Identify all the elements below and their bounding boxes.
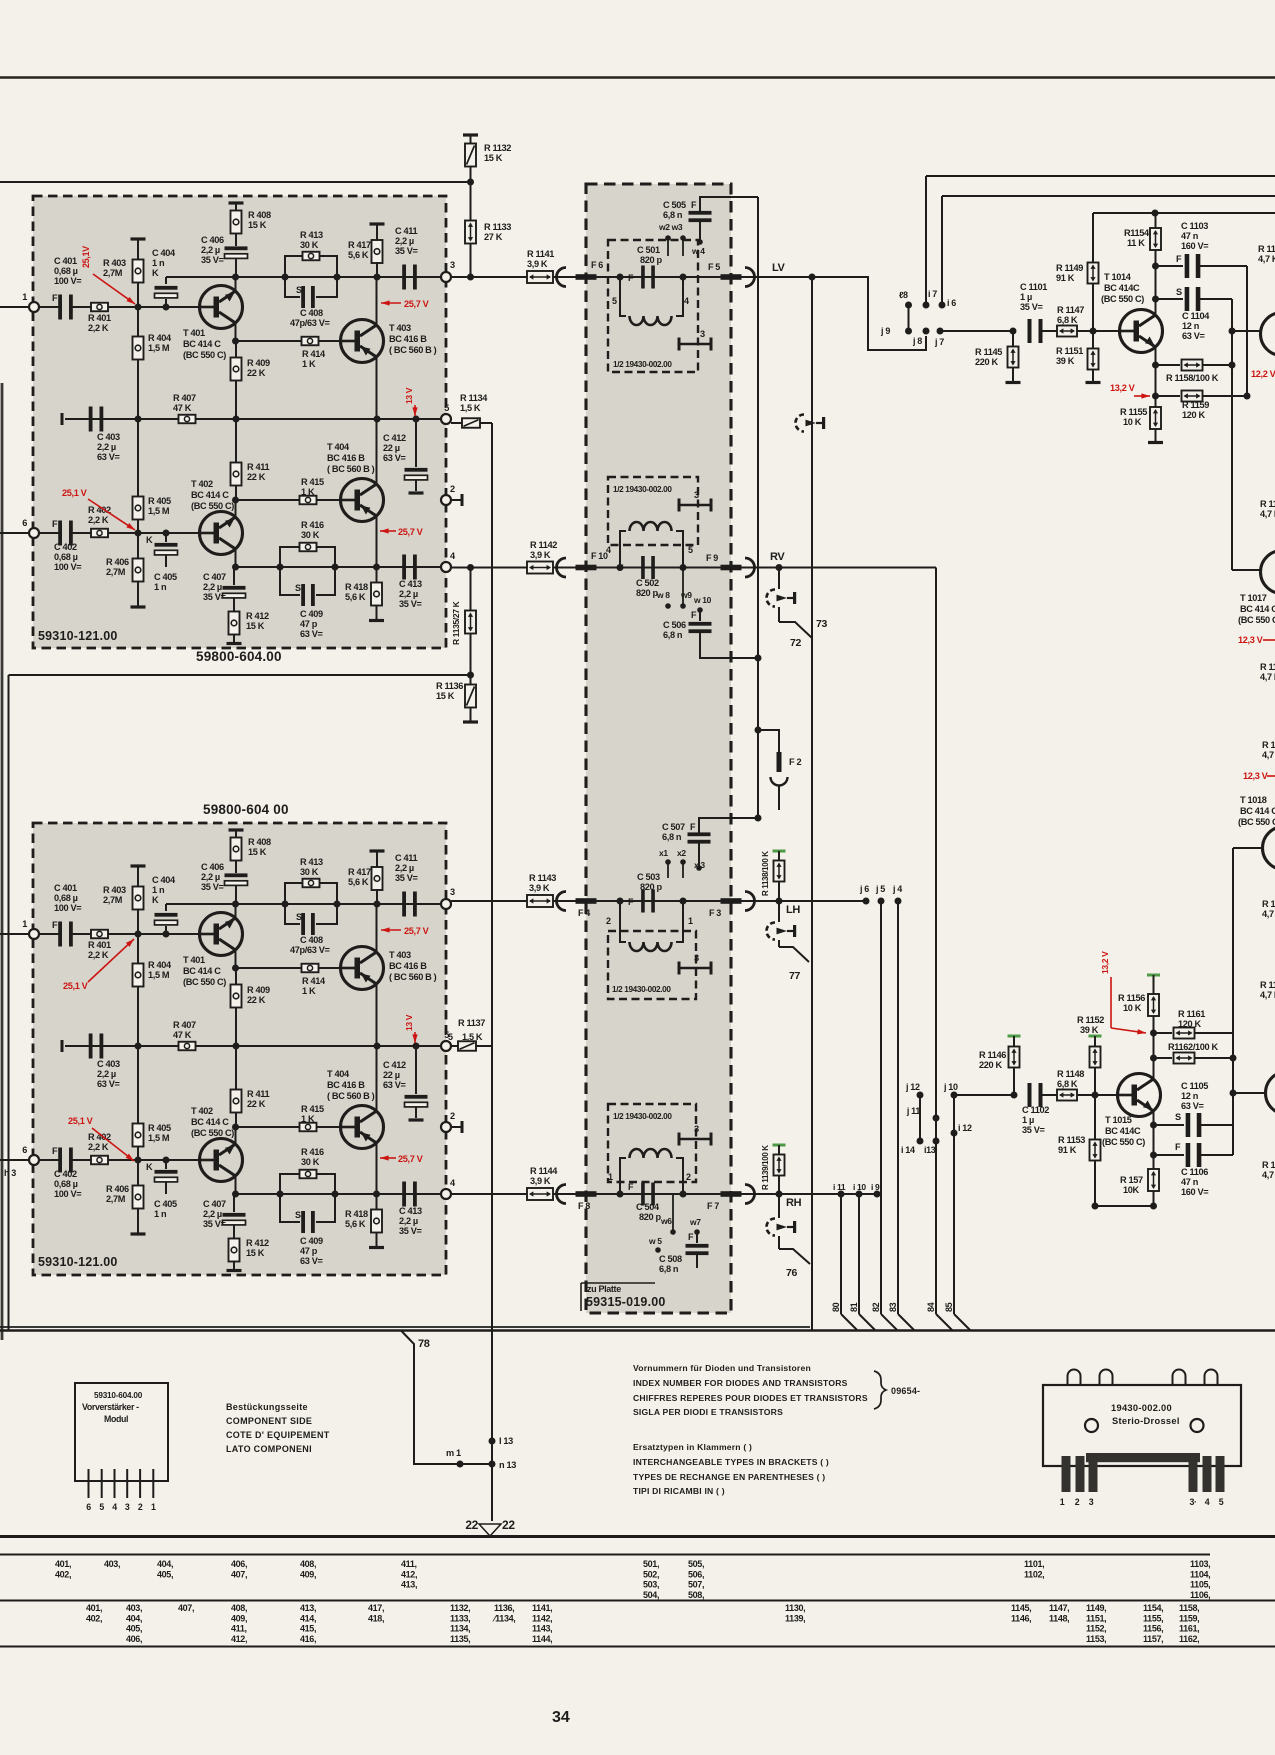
capacitor C412 xyxy=(415,419,417,467)
wire i6 vertical xyxy=(941,196,943,305)
svg-text:F: F xyxy=(691,200,697,210)
capacitor C413 xyxy=(402,555,406,580)
svg-text:j 12: j 12 xyxy=(905,1082,920,1092)
resistor R412 xyxy=(233,1225,235,1239)
svg-text:401,: 401, xyxy=(86,1603,102,1613)
svg-text:C 407: C 407 xyxy=(203,572,226,582)
svg-text:T 404: T 404 xyxy=(327,442,350,452)
table rule 1 xyxy=(0,1554,1210,1556)
svg-text:59800-604.00: 59800-604.00 xyxy=(196,649,282,664)
wire R1144 to F8 xyxy=(553,1193,576,1195)
feedthrough F5 xyxy=(721,274,742,280)
svg-text:160 V=: 160 V= xyxy=(1181,241,1208,251)
wire C506 bottom to right bus xyxy=(700,632,756,658)
svg-text:1161,: 1161, xyxy=(1179,1624,1199,1634)
svg-text:R 1139/100 K: R 1139/100 K xyxy=(761,1145,770,1190)
svg-text:77: 77 xyxy=(789,970,800,982)
resistor R1147 xyxy=(1057,326,1077,337)
svg-text:30 K: 30 K xyxy=(300,867,319,877)
resistor R401 xyxy=(91,303,108,312)
svg-text:w 8: w 8 xyxy=(656,590,670,600)
svg-text:09654-: 09654- xyxy=(891,1386,920,1396)
connector tap LH xyxy=(778,901,780,922)
filter sub-box 4 (1/2 19430-002.00) xyxy=(608,1104,696,1182)
capacitor C505 xyxy=(689,211,712,215)
node j6 xyxy=(863,898,870,905)
svg-text:3: 3 xyxy=(694,1124,699,1134)
svg-text:5: 5 xyxy=(444,403,449,413)
resistor R405 xyxy=(137,1046,139,1124)
svg-text:w 10: w 10 xyxy=(693,595,712,605)
svg-text:C 404: C 404 xyxy=(152,248,176,258)
resistor R402 xyxy=(91,529,108,538)
resistor R1148 xyxy=(1057,1090,1077,1101)
svg-text:I 13: I 13 xyxy=(499,1436,513,1446)
wire R402 to T402 base xyxy=(108,532,200,534)
svg-text:25,7 V: 25,7 V xyxy=(404,299,430,309)
stereo choke body 19430-002.00 xyxy=(1043,1385,1241,1466)
svg-text:2,2 µ: 2,2 µ xyxy=(201,245,220,255)
svg-text:R1162/100 K: R1162/100 K xyxy=(1168,1042,1219,1052)
svg-text:R 403: R 403 xyxy=(103,885,126,895)
svg-text:R 1137: R 1137 xyxy=(458,1018,485,1028)
svg-text:402,: 402, xyxy=(86,1613,102,1623)
svg-text:R 403: R 403 xyxy=(103,258,126,268)
svg-text:F 7: F 7 xyxy=(707,1201,719,1211)
wire j10-i12 down (bus 85) xyxy=(953,1095,955,1314)
svg-text:w2 w3: w2 w3 xyxy=(658,222,683,232)
svg-text:T 403: T 403 xyxy=(389,323,411,333)
svg-text:R 407: R 407 xyxy=(173,393,196,403)
svg-text:RV: RV xyxy=(770,551,785,563)
svg-text:j 10: j 10 xyxy=(943,1082,958,1092)
resistor R416 xyxy=(280,547,299,567)
svg-text:6: 6 xyxy=(22,1145,27,1155)
svg-text:R 1153: R 1153 xyxy=(1058,1135,1085,1145)
capacitor C407 xyxy=(232,1194,234,1212)
preamp module box 59310-121.00 (lower) xyxy=(33,823,446,1275)
wire T402 emitter xyxy=(235,1176,237,1194)
svg-text:2,2 µ: 2,2 µ xyxy=(203,1209,222,1219)
svg-text:R 1141: R 1141 xyxy=(527,249,554,259)
svg-text:R 1152: R 1152 xyxy=(1077,1015,1104,1025)
wire j7 to C1101 xyxy=(940,330,1013,332)
svg-text:76: 76 xyxy=(786,1267,797,1279)
svg-text:120 K: 120 K xyxy=(1178,1019,1201,1029)
svg-text:( BC 560 B ): ( BC 560 B ) xyxy=(327,1091,375,1101)
svg-text:1145,: 1145, xyxy=(1011,1603,1031,1613)
wire C505 top to right bus xyxy=(700,197,758,212)
wire left edge vertical xyxy=(8,675,10,1330)
svg-text:25,1 V: 25,1 V xyxy=(63,981,89,991)
svg-text:RH: RH xyxy=(786,1197,802,1209)
pin 3 xyxy=(441,899,451,909)
transistor T404 xyxy=(341,479,384,522)
svg-text:4,7: 4,7 xyxy=(1262,750,1274,760)
svg-text:412,: 412, xyxy=(231,1634,247,1644)
svg-text:1: 1 xyxy=(688,916,693,926)
preamp module box 59310-121.00 (upper) xyxy=(33,196,446,648)
wire R1141 to F6 xyxy=(553,276,576,278)
svg-text:F: F xyxy=(628,897,634,907)
svg-text:220 K: 220 K xyxy=(979,1060,1002,1070)
svg-text:414,: 414, xyxy=(300,1613,316,1623)
svg-text:1,5 K: 1,5 K xyxy=(460,403,481,413)
svg-text:504,: 504, xyxy=(643,1590,659,1600)
feedthrough F7 xyxy=(721,1191,742,1197)
resistor R418 xyxy=(376,567,378,583)
svg-text:6,8 K: 6,8 K xyxy=(1057,1079,1078,1089)
svg-text:1142,: 1142, xyxy=(532,1613,552,1623)
svg-text:2,2 µ: 2,2 µ xyxy=(395,236,414,246)
svg-text:R 401: R 401 xyxy=(88,940,111,950)
resistor R413 xyxy=(285,883,302,904)
resistor R1142 xyxy=(527,562,553,574)
svg-text:22: 22 xyxy=(465,1518,478,1532)
svg-text:( BC 560 B ): ( BC 560 B ) xyxy=(389,972,437,982)
collector rail wire xyxy=(166,276,446,278)
capacitor C412 xyxy=(415,1046,417,1094)
svg-text:F 3: F 3 xyxy=(709,908,721,918)
edge transistor T1018 (partial) xyxy=(1263,827,1275,870)
svg-text:C 412: C 412 xyxy=(383,433,406,443)
svg-text:5: 5 xyxy=(612,296,617,306)
svg-text:F: F xyxy=(52,1146,58,1156)
svg-text:C 506: C 506 xyxy=(663,620,686,630)
svg-text:S: S xyxy=(296,912,302,922)
capacitor C1101 xyxy=(1028,319,1032,343)
svg-text:Vorverstärker -: Vorverstärker - xyxy=(82,1402,139,1412)
svg-text:S: S xyxy=(295,583,301,593)
capacitor C1102 xyxy=(1028,1083,1032,1107)
svg-text:2: 2 xyxy=(138,1502,143,1512)
top feed line A xyxy=(926,175,1275,177)
svg-text:C 403: C 403 xyxy=(97,432,120,442)
svg-text:C 401: C 401 xyxy=(54,883,77,893)
left page edge line xyxy=(1,383,4,1340)
svg-text:(BC 550 C): (BC 550 C) xyxy=(1102,1137,1145,1147)
resistor R417 xyxy=(370,222,385,225)
wire pin4' to R1144 (RH) xyxy=(451,1193,527,1195)
svg-text:2,2 K: 2,2 K xyxy=(88,515,109,525)
transistor T404 xyxy=(341,1106,384,1149)
resistor R1132 xyxy=(463,133,478,136)
svg-text:2,2 µ: 2,2 µ xyxy=(399,1216,418,1226)
label zu Platte 59315-019.00 xyxy=(581,1282,655,1284)
resistor R413 xyxy=(285,256,302,277)
resistor R1135/27K xyxy=(470,568,472,611)
wire T404 collector to rail xyxy=(376,419,378,484)
svg-text:47 p: 47 p xyxy=(300,1246,318,1256)
resistor R1159 xyxy=(1156,395,1181,397)
svg-text:501,: 501, xyxy=(643,1559,659,1569)
svg-text:59800-604 00: 59800-604 00 xyxy=(203,802,289,817)
svg-text:409,: 409, xyxy=(300,1569,316,1579)
svg-text:22 µ: 22 µ xyxy=(383,1070,400,1080)
svg-text:R 1156: R 1156 xyxy=(1118,993,1145,1003)
wire C1102-R1148 xyxy=(1042,1094,1057,1096)
pin 3 symbol (filter 3) xyxy=(679,967,711,970)
wire pin3' to R1143 (LH) xyxy=(451,900,527,902)
pin 2 xyxy=(441,495,451,505)
transistor T401 xyxy=(200,286,243,329)
svg-text:R 416: R 416 xyxy=(301,520,324,530)
svg-text:25,7 V: 25,7 V xyxy=(404,926,430,936)
svg-text:1: 1 xyxy=(1060,1497,1065,1507)
resistor R1137 xyxy=(451,1045,458,1047)
svg-text:C 402: C 402 xyxy=(54,542,77,552)
resistor R418 xyxy=(376,1194,378,1210)
svg-text:35 V=: 35 V= xyxy=(399,599,422,609)
wire C402-R402 xyxy=(72,1159,91,1161)
stereo choke holes xyxy=(1085,1419,1098,1432)
svg-text:820 p: 820 p xyxy=(640,882,662,892)
svg-text:1/2 19430-002.00: 1/2 19430-002.00 xyxy=(613,1112,672,1121)
svg-text:C 504: C 504 xyxy=(636,1202,660,1212)
wire LV line to junction xyxy=(741,276,812,278)
svg-text:5: 5 xyxy=(448,1032,453,1042)
svg-text:BC 414 C: BC 414 C xyxy=(191,1117,229,1127)
svg-text:5: 5 xyxy=(1219,1497,1224,1507)
wire T1015 emitter xyxy=(1153,1111,1155,1169)
svg-text:2,2 µ: 2,2 µ xyxy=(399,589,418,599)
svg-text:25,1 V: 25,1 V xyxy=(62,488,88,498)
svg-text:T 1018: T 1018 xyxy=(1240,795,1267,805)
nodes l8 i7 i6 xyxy=(905,302,912,309)
svg-text:C 411: C 411 xyxy=(395,853,417,863)
svg-text:K: K xyxy=(152,268,159,278)
wire C1103 right down xyxy=(1246,266,1248,396)
svg-text:1101,: 1101, xyxy=(1024,1559,1044,1569)
svg-text:1106,: 1106, xyxy=(1190,1590,1210,1600)
svg-text:2,2 K: 2,2 K xyxy=(88,1142,109,1152)
wire T403 emitter to rail xyxy=(376,984,378,1046)
capacitor C507 xyxy=(688,832,711,836)
svg-text:R 110: R 110 xyxy=(1260,980,1275,990)
svg-text:47p/63 V=: 47p/63 V= xyxy=(290,318,330,328)
terminal R403 top xyxy=(131,864,146,867)
svg-text:35 V=: 35 V= xyxy=(201,255,224,265)
svg-text:3: 3 xyxy=(1089,1497,1094,1507)
svg-text:47 K: 47 K xyxy=(173,403,192,413)
svg-text:5: 5 xyxy=(99,1502,104,1512)
svg-text:R 411: R 411 xyxy=(247,462,269,472)
svg-text:C 409: C 409 xyxy=(300,609,323,619)
svg-text:59310-121.00: 59310-121.00 xyxy=(38,629,118,643)
resistor R416 xyxy=(280,1174,299,1194)
svg-text:T 1015: T 1015 xyxy=(1105,1115,1132,1125)
wire to edge transistor (lower) xyxy=(1233,1092,1266,1094)
svg-text:3,9 K: 3,9 K xyxy=(530,550,551,560)
svg-text:C 409: C 409 xyxy=(300,1236,323,1246)
svg-text:1135,: 1135, xyxy=(450,1634,470,1644)
pin 5 xyxy=(441,414,451,424)
capacitor C403 xyxy=(89,1034,93,1059)
right column bus wire (x=758) xyxy=(757,197,759,818)
svg-text:R 414: R 414 xyxy=(302,976,326,986)
svg-text:503,: 503, xyxy=(643,1580,659,1590)
capacitor C408 xyxy=(285,277,300,297)
wire input 2 xyxy=(0,532,59,534)
resistor R407 xyxy=(179,1042,196,1051)
svg-text:F: F xyxy=(690,822,696,832)
svg-text:1149,: 1149, xyxy=(1086,1603,1106,1613)
capacitor C403 xyxy=(89,407,93,432)
filter sub-box 2 (1/2 19430-002.00) xyxy=(608,477,698,545)
resistor R1136 xyxy=(470,675,472,684)
svg-text:5: 5 xyxy=(688,545,693,555)
pin 1 xyxy=(29,302,39,312)
capacitor C401 xyxy=(58,922,62,947)
resistor R1145 xyxy=(1008,347,1019,368)
svg-text:R 406: R 406 xyxy=(106,1184,129,1194)
svg-text:1154,: 1154, xyxy=(1143,1603,1163,1613)
filter sub-box 1 (1/2 19430-002.00) xyxy=(608,240,698,372)
svg-text:R 11: R 11 xyxy=(1258,244,1275,254)
resistor R1152 xyxy=(1089,1035,1102,1038)
svg-text:LV: LV xyxy=(772,262,786,274)
svg-text:1,5 M: 1,5 M xyxy=(148,506,170,516)
svg-text:F: F xyxy=(52,519,58,529)
svg-text:COTE D' EQUIPEMENT: COTE D' EQUIPEMENT xyxy=(226,1430,330,1440)
pin 4 xyxy=(441,1189,451,1199)
svg-text:BC 414 C: BC 414 C xyxy=(191,490,229,500)
svg-text:59310-121.00: 59310-121.00 xyxy=(38,1255,118,1269)
svg-text:F 5: F 5 xyxy=(708,262,720,272)
svg-text:35 V=: 35 V= xyxy=(1020,302,1043,312)
capacitor C411 xyxy=(402,892,406,917)
resistor R404 xyxy=(137,934,139,964)
svg-text:R 411: R 411 xyxy=(247,1089,269,1099)
svg-text:C 1104: C 1104 xyxy=(1182,311,1210,321)
wire j5 (bus 82) xyxy=(878,898,885,905)
svg-text:C 408: C 408 xyxy=(300,935,323,945)
svg-text:3·: 3· xyxy=(1189,1497,1196,1507)
feedthrough F6 xyxy=(557,268,567,287)
svg-text:C 405: C 405 xyxy=(154,1199,177,1209)
stereo choke pins (dark) xyxy=(1086,1453,1200,1462)
svg-text:1102,: 1102, xyxy=(1024,1569,1044,1579)
svg-text:S: S xyxy=(1175,1112,1181,1122)
svg-text:39 K: 39 K xyxy=(1056,356,1075,366)
svg-text:T 402: T 402 xyxy=(191,1106,213,1116)
svg-text:35 V=: 35 V= xyxy=(203,1219,226,1229)
svg-text:ℓ8: ℓ8 xyxy=(899,290,908,300)
svg-text:1104,: 1104, xyxy=(1190,1569,1210,1579)
capacitor C413 xyxy=(402,1182,406,1207)
svg-text:2,2 µ: 2,2 µ xyxy=(395,863,414,873)
svg-text:w9: w9 xyxy=(680,590,692,600)
svg-text:C 508: C 508 xyxy=(659,1254,682,1264)
resistor R404 xyxy=(137,307,139,337)
svg-text:INTERCHANGEABLE TYPES IN BR: INTERCHANGEABLE TYPES IN BRACKETS ( ) xyxy=(633,1457,829,1467)
wire j12-i14 xyxy=(919,1095,921,1141)
svg-text:25,7 V: 25,7 V xyxy=(398,1154,424,1164)
wire T404 collector to rail xyxy=(376,1046,378,1111)
resistor R1158/100K xyxy=(1156,364,1181,366)
capacitor C406 xyxy=(235,860,237,873)
connector tap LV xyxy=(796,415,805,432)
F2 feedthrough xyxy=(758,730,779,752)
svg-text:1 K: 1 K xyxy=(301,1114,315,1124)
resistor R403 xyxy=(137,240,139,260)
svg-text:1,5 K: 1,5 K xyxy=(462,1032,483,1042)
svg-text:402,: 402, xyxy=(55,1569,71,1579)
svg-text:405,: 405, xyxy=(157,1569,173,1579)
svg-text:R 1132: R 1132 xyxy=(484,143,511,153)
svg-text:R 1136: R 1136 xyxy=(436,681,463,691)
svg-text:84: 84 xyxy=(926,1302,936,1312)
svg-text:1/2 19430-002.00: 1/2 19430-002.00 xyxy=(613,360,672,369)
svg-text:12,3 V: 12,3 V xyxy=(1243,771,1269,781)
capacitor C504 xyxy=(641,1183,645,1206)
svg-text:1151,: 1151, xyxy=(1086,1613,1106,1623)
svg-text:22 K: 22 K xyxy=(247,368,266,378)
resistor R406 xyxy=(137,533,139,559)
svg-text:1,5 M: 1,5 M xyxy=(148,343,170,353)
svg-text:1 K: 1 K xyxy=(301,487,315,497)
svg-text:C 507: C 507 xyxy=(662,822,685,832)
capacitor C402 xyxy=(58,521,62,546)
svg-text:R 1145: R 1145 xyxy=(975,347,1002,357)
svg-text:1 n: 1 n xyxy=(154,582,167,592)
capacitor C407 xyxy=(232,567,234,585)
svg-text:3: 3 xyxy=(694,953,699,963)
svg-text:T 1017: T 1017 xyxy=(1240,593,1267,603)
supply rail (pin 5) xyxy=(65,1045,446,1047)
svg-text:408,: 408, xyxy=(231,1603,247,1613)
svg-text:T 402: T 402 xyxy=(191,479,213,489)
svg-text:C 1106: C 1106 xyxy=(1181,1167,1208,1177)
LH line right xyxy=(741,900,866,902)
wire C1101-R1147 xyxy=(1042,330,1057,332)
wire to edge transistor row xyxy=(1232,330,1261,332)
svg-text:6: 6 xyxy=(86,1502,91,1512)
supply rail (pin 5) xyxy=(65,418,446,420)
svg-text:1155,: 1155, xyxy=(1143,1613,1163,1623)
coil L1 (1/2 19430-002.00) xyxy=(620,277,626,316)
resistor R1146 xyxy=(1008,1035,1021,1038)
svg-text:R 408: R 408 xyxy=(248,210,271,220)
svg-text:BC 414 C: BC 414 C xyxy=(1240,604,1275,614)
svg-text:w7: w7 xyxy=(689,1217,701,1227)
wire j10 to C1102 xyxy=(954,1094,1014,1096)
resistor R412 xyxy=(233,598,235,612)
svg-text:47 n: 47 n xyxy=(1181,231,1199,241)
svg-text:2,2 µ: 2,2 µ xyxy=(97,1069,116,1079)
node I13 xyxy=(489,1438,496,1445)
svg-text:R 1151: R 1151 xyxy=(1056,346,1083,356)
base line T403 xyxy=(236,340,342,342)
svg-text:S: S xyxy=(296,285,302,295)
svg-text:⁄1134,: ⁄1134, xyxy=(492,1613,515,1623)
svg-text:72: 72 xyxy=(790,637,801,649)
svg-text:m 1: m 1 xyxy=(446,1448,461,1458)
svg-text:5,6 K: 5,6 K xyxy=(348,877,369,887)
wire j4 (bus 83) xyxy=(895,898,902,905)
capacitor C506 xyxy=(699,610,701,621)
svg-text:1,5 M: 1,5 M xyxy=(148,970,170,980)
svg-text:1139,: 1139, xyxy=(785,1613,805,1623)
svg-text:100 V=: 100 V= xyxy=(54,1189,81,1199)
wire R401 to T401 base xyxy=(108,306,200,308)
nodes j9 j8 j7 xyxy=(905,328,912,335)
wire C401-R401 xyxy=(72,306,91,308)
svg-text:4: 4 xyxy=(112,1502,117,1512)
svg-text:R 1143: R 1143 xyxy=(529,873,556,883)
svg-text:2: 2 xyxy=(686,1172,691,1182)
svg-text:(BC 550 C: (BC 550 C xyxy=(1238,817,1275,827)
